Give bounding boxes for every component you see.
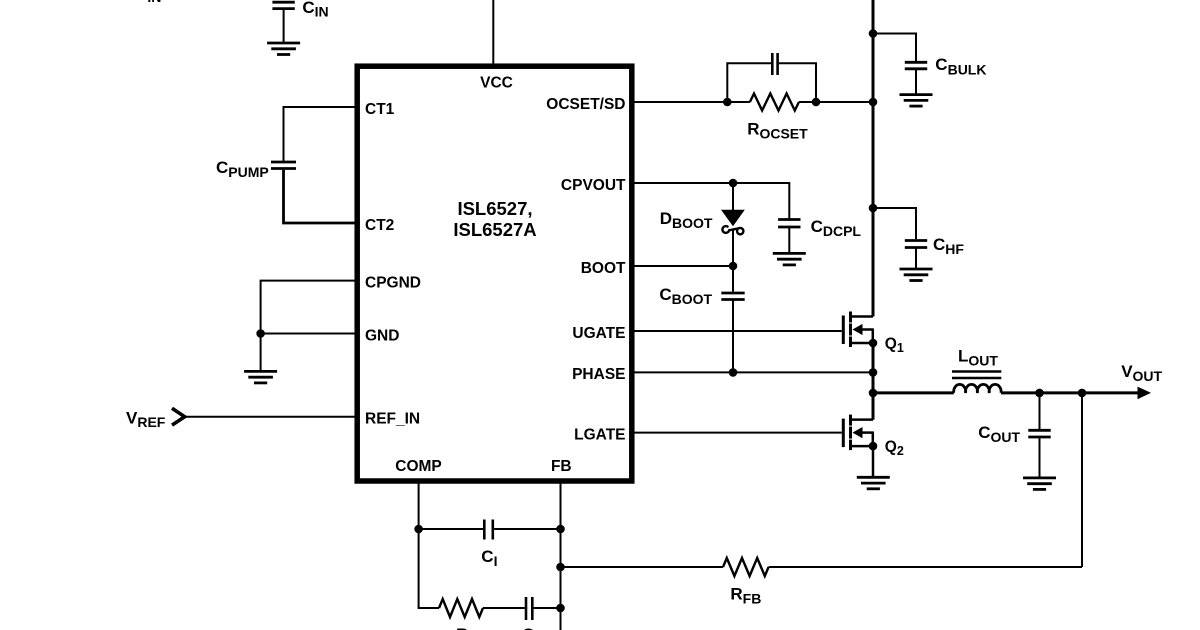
svg-text:CPUMP: CPUMP xyxy=(216,158,269,180)
capacitor C_IN plates xyxy=(272,1,294,4)
ground below C_DCPL xyxy=(773,252,806,255)
wire CPVOUT pin right xyxy=(632,183,789,219)
wire output node to C_OUT xyxy=(1039,393,1041,429)
junction Q1 source xyxy=(869,339,878,348)
wire bypass cap to right node xyxy=(779,63,816,102)
svg-text:VOUT: VOUT xyxy=(1121,362,1162,384)
wire CPGND pin down to GND net xyxy=(261,281,357,334)
capacitor C_C plates xyxy=(525,597,528,620)
svg-text:GND: GND xyxy=(365,328,399,345)
svg-text:COMP: COMP xyxy=(395,458,442,475)
wire PHASE pin to phase node xyxy=(632,371,873,373)
input chevron V_REF xyxy=(172,408,185,425)
svg-text:FB: FB xyxy=(551,458,572,475)
wire C_I right xyxy=(494,528,560,530)
svg-text:Q1: Q1 xyxy=(885,335,904,355)
wire R_OCSET to rail xyxy=(799,101,873,103)
wire BOOT pin right xyxy=(632,265,733,267)
junction CPGND/GND node xyxy=(256,329,265,338)
wire FB pin down xyxy=(560,481,562,630)
svg-text:CI: CI xyxy=(481,547,497,569)
svg-text:CBOOT: CBOOT xyxy=(659,285,712,307)
svg-text:CDCPL: CDCPL xyxy=(811,217,862,239)
wire C_BOOT to PHASE net xyxy=(732,300,734,373)
svg-text:C: C xyxy=(522,625,534,630)
wire UGATE pin to Q1 gate xyxy=(632,330,842,332)
wire rail to C_BULK xyxy=(873,34,916,62)
capacitor C_HF plates xyxy=(905,239,927,242)
svg-text:CT2: CT2 xyxy=(365,217,394,234)
wire R_C to C_C xyxy=(483,607,525,609)
wire Q2 source to ground xyxy=(872,446,875,477)
svg-text:ISL6527,: ISL6527, xyxy=(457,198,532,219)
svg-text:CIN: CIN xyxy=(302,0,328,19)
capacitor C_DCPL plates xyxy=(778,218,800,221)
capacitor C_BULK plates xyxy=(905,61,927,64)
svg-text:OCSET/SD: OCSET/SD xyxy=(546,96,625,113)
wire L_OUT to V_OUT arrow xyxy=(1001,391,1141,394)
resistor R_OCSET xyxy=(750,94,799,111)
svg-text:CHF: CHF xyxy=(933,235,964,257)
wire C_I left xyxy=(419,528,483,530)
svg-text:CT1: CT1 xyxy=(365,101,395,118)
op-amp U1 ISL6527 controller IC body xyxy=(357,66,632,481)
ground below C_IN xyxy=(267,42,300,45)
junction FB at C_I xyxy=(556,525,565,534)
wire COMP corner to R xyxy=(419,607,439,608)
wire C_IN to ground xyxy=(283,9,285,43)
ground below Q2 xyxy=(857,476,890,479)
inductor L_OUT winding xyxy=(954,384,1001,393)
capacitor C_BOOT plates xyxy=(721,292,744,295)
junction COMP at C_I xyxy=(414,525,423,534)
junction CPVOUT at D_BOOT xyxy=(729,179,738,188)
junction feedback node xyxy=(1078,389,1087,398)
junction BOOT node xyxy=(729,262,738,271)
svg-text:VIN: VIN xyxy=(136,0,161,5)
wire CT1 pin to C_PUMP xyxy=(284,107,358,161)
junction FB feedback node xyxy=(556,563,565,572)
wire C_PUMP to CT2 pin xyxy=(284,170,358,223)
wire R_FB to FB node xyxy=(561,566,724,568)
junction PHASE pin at node xyxy=(869,368,878,377)
wire BOOT node to C_BOOT xyxy=(732,266,734,292)
wire COMP pin down xyxy=(418,481,420,608)
wire Q1 drain up xyxy=(872,300,875,317)
wire GND node down xyxy=(260,334,262,372)
wire C_OUT to ground xyxy=(1039,437,1041,478)
junction rail to C_HF xyxy=(869,204,878,213)
arrow V_OUT xyxy=(1138,387,1152,400)
capacitor C_PUMP plates xyxy=(271,161,296,164)
wire diode to BOOT node xyxy=(732,229,734,267)
svg-text:ROCSET: ROCSET xyxy=(747,119,808,141)
wire V_REF to REF_IN pin xyxy=(182,416,357,418)
svg-text:LGATE: LGATE xyxy=(574,426,625,443)
svg-text:DBOOT: DBOOT xyxy=(660,209,713,231)
wire feedback to R_FB xyxy=(769,566,1082,568)
wire C_DCPL to ground xyxy=(788,227,790,253)
junction FB at R-C branch xyxy=(556,604,565,613)
wire rail to C_HF xyxy=(873,208,916,239)
svg-text:CPGND: CPGND xyxy=(365,275,421,292)
svg-text:VREF: VREF xyxy=(126,409,166,431)
svg-text:BOOT: BOOT xyxy=(581,260,626,277)
wire input rail vertical xyxy=(872,0,875,317)
wire C_HF to ground xyxy=(915,248,917,270)
svg-text:PHASE: PHASE xyxy=(572,366,625,383)
resistor R_FB xyxy=(723,558,769,576)
resistor R_C (compensation) xyxy=(439,599,483,617)
transistor Q1 (upper MOSFET) xyxy=(842,316,845,345)
wire OCSET bypass cap branch xyxy=(727,63,771,102)
svg-text:RFB: RFB xyxy=(730,584,761,606)
svg-text:COUT: COUT xyxy=(978,423,1020,445)
wire C_BULK to ground xyxy=(915,69,917,95)
junction OCSET left node xyxy=(723,98,732,107)
diode D_BOOT body xyxy=(721,210,745,227)
junction OCSET at rail xyxy=(869,98,878,107)
svg-text:ISL6527A: ISL6527A xyxy=(453,219,536,240)
capacitor C_OUT plates xyxy=(1028,429,1050,432)
junction C_BOOT at PHASE wire xyxy=(729,368,738,377)
wire feedback node down xyxy=(1081,393,1083,567)
wire CPVOUT node to diode xyxy=(732,183,734,210)
wire OCSET/SD pin to R_OCSET xyxy=(632,101,750,103)
ground below C_HF xyxy=(900,268,933,271)
svg-text:CPVOUT: CPVOUT xyxy=(561,177,626,194)
svg-text:R: R xyxy=(456,625,468,630)
capacitor C_I plates xyxy=(483,520,486,540)
capacitor across R_OCSET plates xyxy=(771,53,774,75)
svg-text:VCC: VCC xyxy=(480,75,513,92)
junction C_OUT node xyxy=(1035,389,1044,398)
svg-text:REF_IN: REF_IN xyxy=(365,411,420,428)
diode D_BOOT schottky cathode xyxy=(722,226,743,234)
wire LGATE pin to Q2 gate xyxy=(632,432,842,434)
wire GND pin to ground xyxy=(261,333,357,335)
wire VCC pin to top edge xyxy=(492,0,494,66)
ground below GND pin xyxy=(244,370,277,373)
junction phase output node xyxy=(869,389,878,398)
wire phase node vertical xyxy=(872,343,875,420)
inductor L_OUT core bars xyxy=(952,370,1001,372)
svg-text:Q2: Q2 xyxy=(885,439,904,459)
junction rail to C_BULK xyxy=(869,29,878,38)
svg-text:CBULK: CBULK xyxy=(935,55,986,78)
ground below C_BULK xyxy=(900,93,933,96)
svg-text:UGATE: UGATE xyxy=(572,325,625,342)
ground below C_OUT xyxy=(1023,476,1056,479)
junction OCSET right node xyxy=(812,98,821,107)
svg-text:LOUT: LOUT xyxy=(958,346,998,368)
transistor Q2 (lower MOSFET) xyxy=(842,419,845,448)
wire C_C to FB node xyxy=(534,607,561,609)
junction Q2 source xyxy=(869,442,878,451)
wire phase node to L_OUT xyxy=(873,391,954,394)
